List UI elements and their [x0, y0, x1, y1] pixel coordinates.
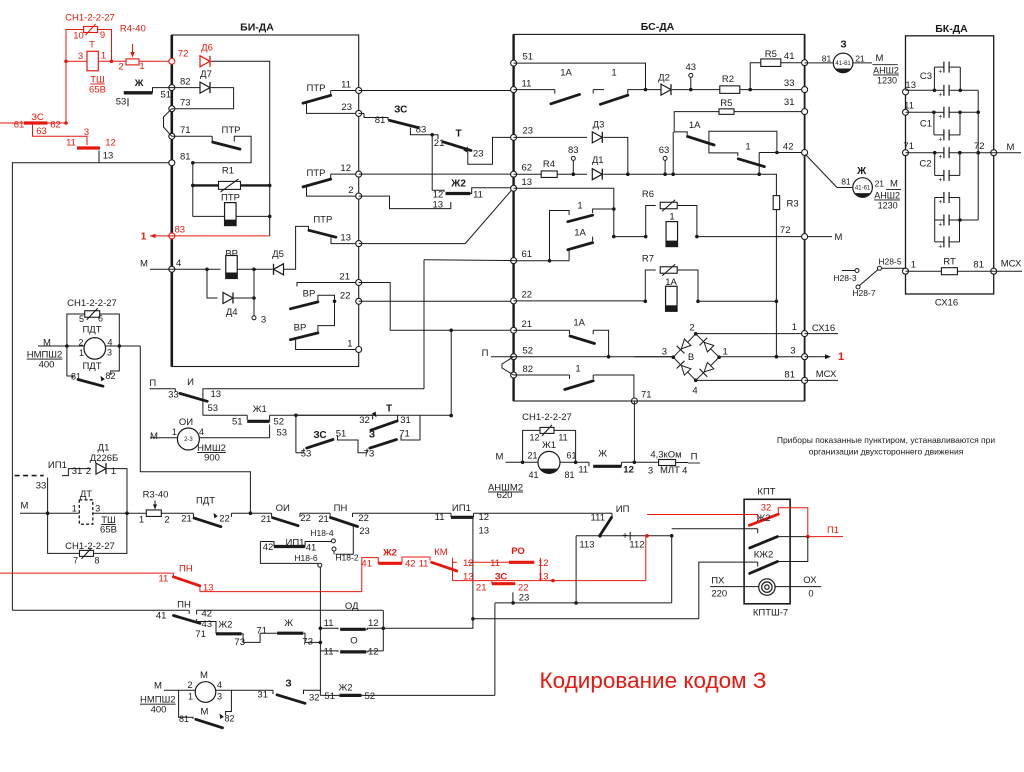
svg-text:53: 53	[277, 428, 288, 439]
resistor R3	[773, 196, 780, 210]
node 81	[169, 160, 175, 166]
svg-text:М: М	[201, 707, 209, 718]
wire red 12 to 13 tick	[99, 147, 100, 149]
junction 3	[252, 268, 256, 272]
svg-text:ПТР: ПТР	[222, 125, 241, 136]
terminal 83 circle	[571, 156, 575, 160]
svg-text:R5: R5	[720, 98, 732, 109]
svg-text:11: 11	[558, 433, 567, 443]
svg-text:62: 62	[522, 163, 533, 174]
svg-text:81: 81	[179, 714, 189, 724]
svg-text:112: 112	[629, 540, 644, 551]
wire О right	[366, 651, 383, 652]
node 73	[169, 106, 175, 112]
node 71 БК-ДА	[903, 150, 909, 156]
svg-text:41: 41	[784, 51, 795, 62]
wire R5 to node 31	[734, 111, 805, 113]
junction ИП1-13	[471, 617, 475, 621]
coil ПДТ circle	[84, 338, 106, 360]
svg-text:81: 81	[375, 115, 386, 126]
svg-text:МСХ: МСХ	[816, 369, 837, 380]
wire 81 row left	[12, 163, 171, 610]
svg-text:КМ: КМ	[434, 547, 448, 558]
wire R6 right	[677, 206, 697, 237]
svg-text:3: 3	[217, 692, 222, 702]
wire 21 row jog	[359, 283, 514, 331]
svg-text:400: 400	[151, 705, 167, 716]
svg-text:О: О	[350, 635, 357, 646]
node 21 БС-ДА left	[511, 327, 517, 333]
svg-text:3: 3	[95, 504, 100, 514]
svg-text:1А: 1А	[689, 120, 701, 131]
svg-text:8: 8	[94, 556, 99, 566]
junction 52	[607, 355, 611, 359]
relay coil Ж АНШ2	[806, 155, 838, 188]
svg-text:3: 3	[107, 348, 112, 358]
terminal Н28-3	[855, 269, 859, 273]
node 31 БС-ДА right	[802, 109, 808, 115]
contact М (81-82)	[179, 690, 193, 719]
junction П1	[806, 535, 810, 539]
svg-text:71: 71	[195, 629, 206, 640]
svg-text:Ж2: Ж2	[450, 179, 466, 190]
node 21 БИ-ДА right	[356, 280, 362, 286]
wire 1 to Д2	[628, 90, 661, 96]
svg-text:71: 71	[180, 125, 191, 136]
svg-text:R1: R1	[222, 166, 234, 177]
junction red left	[64, 60, 68, 64]
svg-text:1: 1	[611, 68, 616, 79]
node 1 БК-ДА	[903, 268, 909, 274]
contact 1 (13)	[593, 209, 614, 213]
wire М coil to З	[216, 689, 273, 691]
terminal Н18-4	[331, 539, 335, 543]
svg-text:М: М	[154, 681, 162, 692]
junction Ж2 lead	[670, 534, 674, 538]
node 23 БИ-ДА right	[356, 110, 362, 116]
svg-text:51: 51	[161, 90, 172, 101]
wire 82 bracket М	[226, 690, 232, 715]
svg-text:Ж: Ж	[134, 78, 144, 89]
svg-text:1А: 1А	[574, 227, 586, 238]
wire ОД right	[366, 628, 384, 629]
underline М	[872, 64, 897, 66]
svg-text:ОД: ОД	[345, 601, 359, 612]
junction 33	[46, 511, 50, 515]
svg-text:4: 4	[682, 466, 687, 477]
svg-text:2: 2	[78, 338, 83, 348]
wire СН lower right	[93, 513, 127, 553]
svg-text:111: 111	[591, 513, 605, 524]
svg-text:113: 113	[579, 540, 594, 551]
svg-text:Т: Т	[456, 128, 462, 139]
svg-text:Д7: Д7	[200, 69, 212, 80]
wire red 63 row	[33, 123, 88, 145]
contact 1 (42)	[709, 145, 738, 156]
svg-text:ИП: ИП	[616, 504, 630, 515]
wire bridge 3 to 52	[634, 356, 673, 358]
svg-text:R4: R4	[543, 159, 555, 170]
svg-text:81: 81	[822, 54, 832, 64]
node 72 БС-ДА right	[802, 234, 808, 240]
wire bridge 1 to node 3	[719, 356, 805, 358]
junction red П1 route	[551, 579, 555, 583]
contact 1А (11 row)	[514, 89, 555, 91]
svg-text:R5: R5	[765, 49, 777, 60]
svg-text:ОИ: ОИ	[179, 417, 193, 428]
svg-text:33: 33	[784, 78, 795, 89]
wire red vertical 66	[65, 61, 67, 123]
svg-text:82: 82	[523, 364, 534, 375]
node 81 БС-ДА right	[802, 377, 808, 383]
svg-text:Н28-5: Н28-5	[878, 257, 901, 267]
bridge diode top-left	[681, 339, 691, 349]
wire 42 long	[197, 609, 384, 611]
wire Н28-5 to node 1	[882, 267, 906, 269]
wire 71 bottom edge	[514, 400, 805, 402]
svg-text:2: 2	[164, 515, 169, 526]
svg-text:41-61: 41-61	[855, 186, 871, 192]
arrow onto R4-40	[132, 44, 134, 53]
svg-text:1А: 1А	[560, 68, 572, 79]
svg-text:RT: RT	[943, 257, 956, 268]
svg-text:1А: 1А	[573, 318, 585, 329]
svg-text:М: М	[200, 670, 208, 681]
wire red jog up	[362, 558, 378, 592]
svg-text:М: М	[150, 431, 158, 442]
wire ОИ to 53	[199, 437, 269, 439]
wire coil right	[106, 345, 141, 347]
terminal Н28-7	[856, 285, 860, 289]
svg-text:72: 72	[974, 141, 985, 152]
svg-text:13: 13	[433, 200, 444, 211]
svg-text:73: 73	[364, 449, 375, 460]
wire Д7 loop	[171, 87, 173, 89]
svg-text:ПН: ПН	[177, 600, 191, 611]
svg-text:М: М	[876, 53, 884, 64]
wire 13 И to 61	[203, 389, 424, 392]
svg-text:11: 11	[904, 101, 914, 112]
rail to 72	[977, 90, 979, 152]
svg-text:33: 33	[36, 481, 47, 492]
wire И up	[423, 260, 425, 389]
svg-text:1: 1	[347, 339, 352, 350]
contact ПН red (11-13)	[0, 572, 173, 574]
wire ПТР to node 13	[331, 237, 359, 243]
wire 71 row БК	[906, 152, 944, 154]
contact ПН black (41-42/43)	[12, 609, 189, 611]
node 23 БС-ДА left	[511, 134, 517, 140]
wire 1 to ВР	[296, 339, 359, 350]
svg-text:21: 21	[875, 179, 885, 189]
svg-text:65В: 65В	[89, 85, 106, 96]
svg-text:41: 41	[361, 559, 372, 570]
wire lower caps brackets	[934, 198, 936, 242]
wire З2 out to П1	[778, 508, 808, 537]
svg-text:1: 1	[723, 347, 728, 358]
svg-text:620: 620	[497, 490, 513, 501]
bridge В	[673, 334, 719, 381]
svg-text:Приборы показанные пунктиром,: Приборы показанные пунктиром, устанавлив…	[777, 435, 996, 445]
wire Д4 right	[234, 297, 254, 299]
junction ОД	[319, 627, 323, 631]
wire Т to R4-40	[98, 60, 126, 62]
wire М out	[805, 236, 832, 238]
svg-text:21: 21	[855, 54, 865, 64]
arrow on Т contact	[463, 147, 468, 153]
coil Ж circle	[853, 178, 873, 198]
wire З row vertical	[494, 603, 496, 694]
wire МСХ out БК	[994, 270, 1022, 272]
contact Ж closed (11-12)	[560, 461, 589, 463]
wire R4 to Д1	[557, 173, 587, 175]
svg-text:3: 3	[662, 347, 667, 358]
junction R5 branch	[748, 88, 752, 92]
АНШМ2 box	[523, 430, 541, 462]
svg-text:13: 13	[479, 526, 490, 537]
wire 72 row	[697, 236, 805, 238]
wire 13 to R6 coil branch	[614, 236, 646, 238]
wire lower caps to rail	[960, 219, 978, 221]
wire ИП1 to ИП	[474, 512, 606, 514]
svg-text:БИ-ДА: БИ-ДА	[240, 22, 274, 34]
svg-text:5: 5	[79, 314, 84, 324]
svg-text:З: З	[369, 430, 375, 441]
svg-text:11: 11	[473, 190, 483, 201]
wire 52 right	[270, 414, 296, 416]
diode Д3	[514, 136, 587, 138]
wire 52 to bridge	[514, 356, 674, 358]
svg-text:С3: С3	[920, 71, 932, 82]
wire RT to 81	[957, 270, 993, 272]
wire Ж1 53 tap	[269, 425, 271, 438]
svg-text:1: 1	[792, 322, 797, 333]
svg-text:4: 4	[692, 386, 697, 397]
svg-text:М: М	[835, 232, 843, 243]
terminal 23 tick	[512, 592, 514, 603]
svg-text:23: 23	[523, 126, 534, 137]
junction red 112	[645, 534, 649, 538]
junction 113	[598, 534, 602, 538]
svg-text:61: 61	[14, 120, 25, 131]
wire red 72 line	[66, 60, 87, 62]
svg-text:КЖ2: КЖ2	[754, 550, 774, 561]
svg-text:ПДТ: ПДТ	[196, 496, 215, 507]
svg-text:+: +	[938, 177, 942, 184]
wire З to М	[853, 62, 872, 64]
svg-text:23: 23	[341, 102, 352, 113]
svg-text:6: 6	[98, 314, 103, 324]
svg-text:ПДТ: ПДТ	[82, 361, 101, 372]
wire Д5 up to ПТР 13 contact	[284, 226, 309, 269]
jumper wire	[860, 270, 878, 286]
wire to Д5	[254, 268, 273, 270]
svg-text:Н18-4: Н18-4	[310, 528, 333, 538]
svg-text:ЗС: ЗС	[31, 112, 44, 123]
terminal 43 circle	[689, 73, 693, 77]
node 82 БС-ДА left	[511, 372, 517, 378]
wire R5 to node 41	[781, 62, 805, 64]
node 71	[169, 133, 175, 139]
junction R1 left	[191, 184, 195, 188]
wire 21 to ВР	[297, 283, 359, 287]
svg-text:АНШ2: АНШ2	[874, 191, 900, 201]
svg-text:ЗС: ЗС	[495, 571, 508, 582]
svg-text:72: 72	[178, 49, 189, 60]
wire to node 42	[777, 152, 805, 154]
wire 1А to 52	[593, 330, 608, 356]
svg-text:Т: Т	[89, 40, 95, 51]
wire 51 branch	[514, 63, 646, 90]
svg-text:41: 41	[156, 610, 167, 621]
node 3 БС-ДА right	[802, 354, 808, 360]
relay coil З АНШ2	[805, 62, 834, 64]
svg-text:ВР: ВР	[303, 289, 316, 300]
wire node 71 down	[633, 401, 635, 462]
wire R3 top	[775, 174, 777, 195]
svg-text:З: З	[285, 679, 291, 690]
svg-text:21: 21	[339, 272, 350, 283]
wire П1 red	[808, 536, 843, 538]
svg-text:Д5: Д5	[272, 249, 284, 260]
svg-text:7: 7	[73, 556, 78, 566]
svg-text:22: 22	[522, 290, 533, 301]
contact 1А (21-52)	[514, 329, 570, 331]
wire 12 row	[359, 173, 514, 175]
svg-text:11: 11	[324, 647, 334, 658]
svg-text:63: 63	[36, 126, 47, 137]
svg-text:Д226Б: Д226Б	[90, 453, 119, 464]
svg-text:1230: 1230	[877, 76, 897, 86]
svg-text:ПН: ПН	[179, 564, 193, 575]
wire МСХ out	[805, 379, 838, 381]
wire bridge 4 to node 81	[696, 379, 805, 381]
svg-text:СХ16: СХ16	[935, 298, 958, 309]
capacitor С1 lower	[943, 129, 945, 140]
junction 61	[548, 259, 552, 263]
terminal 53	[127, 98, 129, 106]
БС-ДА right edge (thick)	[804, 34, 806, 401]
wire Д2 to R2	[672, 89, 720, 91]
svg-text:И: И	[187, 377, 194, 388]
coil М circle	[195, 682, 216, 703]
svg-text:32: 32	[309, 692, 320, 703]
wire 1 to node 71	[593, 375, 634, 401]
junction 71 link	[633, 461, 637, 465]
junction red 62	[64, 121, 68, 125]
arrow ПДТ contact	[214, 513, 218, 518]
wire КЖ2 out	[778, 537, 808, 562]
wire 23 to БС-ДА	[468, 137, 514, 164]
svg-text:2: 2	[689, 323, 694, 334]
svg-text:32: 32	[761, 503, 772, 514]
wire С1 brackets	[933, 112, 935, 135]
БС-ДА left bus (thick)	[512, 34, 514, 401]
wire Д6 output	[211, 61, 270, 236]
svg-text:ПТР: ПТР	[307, 168, 326, 179]
svg-text:73: 73	[180, 98, 191, 109]
junction contact 1	[612, 207, 616, 211]
junction ПДТ route	[249, 511, 253, 515]
svg-text:43: 43	[686, 62, 697, 73]
wire 32 step	[304, 690, 321, 695]
node 82	[169, 85, 175, 91]
wire 83 to vertical	[172, 235, 270, 237]
svg-text:+: +	[938, 69, 942, 76]
svg-text:220: 220	[711, 589, 727, 600]
svg-text:10: 10	[73, 31, 84, 42]
svg-text:12: 12	[340, 163, 351, 174]
node 81 БК-ДА	[991, 268, 997, 274]
wire И 53 down	[202, 392, 204, 415]
svg-text:+: +	[938, 136, 942, 143]
КПТ box	[744, 499, 790, 604]
wire red 13 long	[200, 591, 362, 593]
wire 83 lead	[410, 128, 432, 135]
svg-text:+: +	[938, 114, 942, 121]
capacitor lower group 1	[943, 192, 945, 203]
svg-text:1: 1	[577, 201, 582, 212]
wire varistor loop red	[66, 30, 84, 62]
capacitor С3 upper	[943, 62, 945, 73]
svg-text:1: 1	[911, 260, 916, 271]
jog 52-82	[502, 357, 514, 375]
terminal Н28-5	[878, 266, 882, 270]
svg-text:Ж: Ж	[284, 618, 293, 629]
node 2 БИ-ДА right	[356, 193, 362, 199]
wire ВР to 22	[318, 295, 335, 302]
wire Д1 to R3 corner	[604, 173, 777, 175]
svg-text:2: 2	[86, 466, 91, 477]
svg-text:1: 1	[141, 231, 147, 242]
svg-text:11: 11	[578, 465, 588, 476]
node 22 БС-ДА left	[511, 298, 517, 304]
svg-text:71: 71	[903, 141, 914, 152]
svg-text:21: 21	[476, 583, 487, 594]
resistor R1	[192, 163, 194, 217]
svg-text:R3: R3	[787, 199, 799, 210]
svg-text:65В: 65В	[100, 525, 117, 536]
junction 113	[574, 601, 578, 605]
svg-text:1: 1	[72, 504, 77, 514]
svg-text:ПН: ПН	[334, 503, 348, 514]
svg-text:М: М	[1007, 142, 1015, 153]
svg-text:23: 23	[473, 149, 484, 160]
svg-text:12: 12	[105, 137, 116, 148]
svg-text:32: 32	[359, 415, 370, 426]
node 11 БК-ДА	[903, 109, 909, 115]
svg-text:М: М	[890, 179, 898, 190]
wire ЗС 53 down	[295, 415, 297, 453]
svg-text:+: +	[938, 222, 942, 229]
svg-text:22: 22	[300, 513, 311, 524]
wire 2 bracket	[307, 187, 359, 196]
svg-text:ОИ: ОИ	[276, 503, 290, 514]
svg-text:81: 81	[180, 152, 191, 163]
junction 81	[191, 161, 195, 165]
junction 22	[333, 300, 337, 304]
svg-text:Кодирование кодом З: Кодирование кодом З	[540, 668, 767, 693]
svg-text:21: 21	[318, 514, 329, 525]
arrow 1 left	[150, 234, 156, 239]
contact ПТР (71-81) internal	[172, 135, 212, 137]
svg-text:71: 71	[256, 626, 267, 637]
svg-text:31: 31	[400, 415, 411, 426]
terminal Н18-6	[318, 563, 322, 567]
node 13 БК-ДА	[903, 89, 909, 95]
svg-text:52: 52	[365, 691, 376, 702]
svg-text:83: 83	[568, 145, 579, 156]
